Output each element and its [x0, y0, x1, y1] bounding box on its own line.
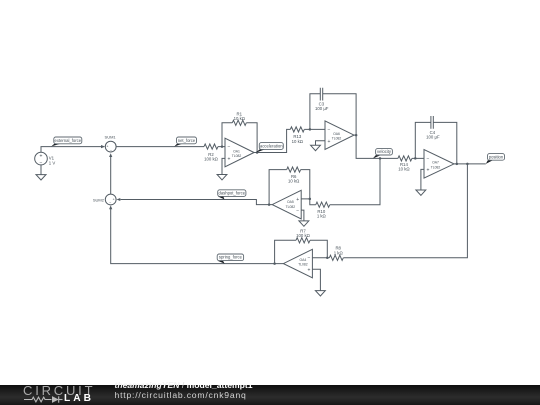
svg-text:100 kΩ: 100 kΩ	[296, 233, 311, 238]
svg-text:+: +	[307, 267, 310, 273]
svg-text:TL082: TL082	[431, 165, 441, 169]
svg-text:−: −	[426, 156, 429, 162]
svg-text:OA4: OA4	[300, 258, 307, 262]
svg-text:TL082: TL082	[232, 154, 242, 158]
svg-text:+: +	[426, 167, 429, 173]
svg-text:OA7: OA7	[432, 161, 439, 165]
svg-text:−: −	[110, 149, 112, 153]
svg-text:10 kΩ: 10 kΩ	[398, 167, 410, 172]
svg-text:1 kΩ: 1 kΩ	[334, 250, 344, 255]
svg-text:TL082: TL082	[332, 137, 342, 141]
svg-text:+: +	[40, 154, 43, 160]
svg-text:100 µF: 100 µF	[426, 134, 440, 139]
svg-text:10 kΩ: 10 kΩ	[234, 116, 246, 121]
svg-text:−: −	[40, 160, 43, 166]
svg-text:spring_force: spring_force	[219, 255, 243, 260]
svg-text:TL082: TL082	[298, 263, 308, 267]
svg-text:acceleration: acceleration	[260, 144, 283, 149]
svg-text:OA1: OA1	[233, 149, 240, 153]
svg-text:+: +	[327, 139, 330, 145]
svg-text:SUM1: SUM1	[105, 134, 117, 139]
svg-text:OA6: OA6	[333, 132, 340, 136]
svg-text:−: −	[327, 127, 330, 133]
svg-text:+: +	[227, 156, 230, 162]
svg-text:−: −	[227, 145, 230, 151]
svg-text:1 V: 1 V	[49, 161, 56, 166]
svg-text:100 kΩ: 100 kΩ	[204, 157, 219, 162]
svg-text:+: +	[113, 198, 115, 202]
svg-text:+: +	[106, 145, 108, 149]
svg-text:100 µF: 100 µF	[315, 106, 329, 111]
svg-text:net_force: net_force	[178, 138, 196, 143]
svg-text:−: −	[109, 201, 111, 205]
svg-text:−: −	[296, 208, 299, 214]
svg-text:OA5: OA5	[287, 200, 294, 204]
svg-text:velocity: velocity	[377, 149, 392, 154]
svg-text:SUM2: SUM2	[93, 197, 105, 202]
svg-text:TL082: TL082	[286, 205, 296, 209]
svg-text:+: +	[296, 197, 299, 203]
svg-text:−: −	[307, 256, 310, 262]
svg-text:dashpot_force: dashpot_force	[219, 191, 246, 196]
svg-text:position: position	[489, 154, 504, 159]
svg-text:1 kΩ: 1 kΩ	[317, 214, 327, 219]
svg-text:10 kΩ: 10 kΩ	[288, 179, 300, 184]
svg-text:10 kΩ: 10 kΩ	[292, 139, 304, 144]
svg-text:external_force: external_force	[55, 138, 82, 143]
